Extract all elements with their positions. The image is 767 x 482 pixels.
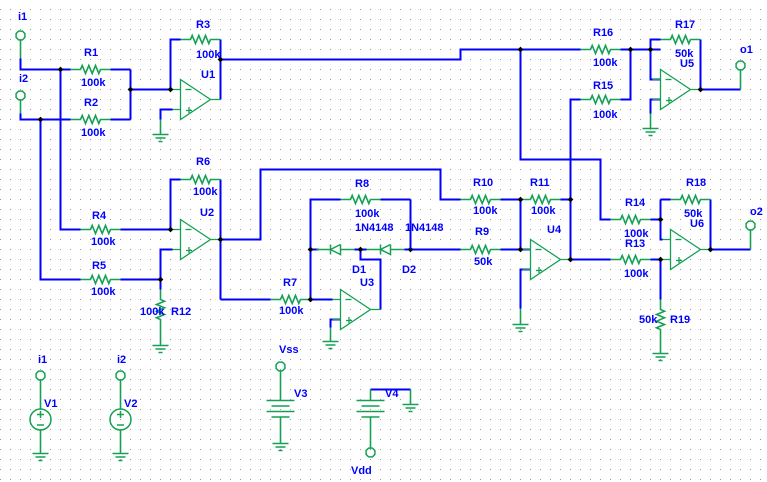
svg-text:R5: R5: [92, 260, 106, 272]
resistor R14: [611, 216, 651, 224]
wire R18 left vertical x660: [661, 200, 663, 240]
svg-text:100k: 100k: [279, 305, 304, 317]
svg-text:R6: R6: [196, 156, 210, 168]
svg-text:50k: 50k: [639, 314, 658, 326]
svg-text:R15: R15: [593, 80, 613, 92]
wire U4 plus to ground: [521, 270, 531, 309]
svg-text:R2: R2: [84, 97, 98, 109]
port i2 bottom: [116, 371, 125, 408]
wire R12 to ground: [160, 330, 162, 346]
wire R19 upper part: [660, 260, 662, 300]
op-amp U6: [663, 230, 711, 270]
wire node B to U1 minus: [131, 89, 173, 91]
ground U1: [153, 120, 169, 142]
port i2 top: [16, 91, 25, 113]
ground R19: [653, 354, 669, 361]
diode D2: [367, 245, 405, 255]
wire R12 upper part: [160, 280, 162, 290]
port Vdd: [366, 448, 375, 457]
wire R6 left loop: [171, 180, 181, 230]
wire R17 left stub: [651, 40, 661, 50]
wire R15 vertical x630: [621, 50, 631, 100]
wire R8 right vertical over label: [410, 200, 412, 250]
wire U5 out to o1: [701, 89, 741, 91]
svg-text:D2: D2: [402, 264, 416, 276]
resistor R10: [461, 196, 501, 204]
ground U3: [323, 328, 339, 349]
resistor R17: [661, 36, 701, 44]
battery V4: [357, 401, 385, 418]
op-amp U2: [173, 220, 221, 260]
wire node A down x60 to R4: [61, 70, 81, 230]
source V1: [30, 409, 51, 454]
svg-text:R14: R14: [625, 197, 646, 209]
battery V3: [267, 401, 295, 418]
svg-text:R7: R7: [283, 277, 297, 289]
wire R8 right vertical x410: [381, 199, 411, 201]
svg-text:R9: R9: [475, 226, 489, 238]
wire U2 plus down: [161, 250, 173, 280]
svg-text:R4: R4: [92, 210, 107, 222]
svg-text:i1: i1: [18, 11, 27, 23]
wire R9 right to U4 minus: [501, 249, 531, 251]
wire U5 plus to ground: [651, 100, 661, 114]
svg-text:V3: V3: [294, 388, 307, 400]
svg-text:U3: U3: [360, 277, 374, 289]
svg-text:50k: 50k: [474, 256, 493, 268]
svg-text:100k: 100k: [593, 57, 618, 69]
wire R14 right to U6 minus node: [651, 219, 661, 221]
ground V1: [33, 454, 49, 461]
wire R8 left loop x310: [311, 200, 341, 300]
port o2: [746, 221, 755, 249]
op-amp U4: [523, 240, 571, 280]
resistor R8: [341, 196, 381, 204]
resistor R4: [81, 226, 121, 234]
resistor R18: [671, 196, 711, 204]
svg-text:Vss: Vss: [279, 344, 299, 356]
resistor R3: [181, 36, 221, 44]
resistor R1: [71, 66, 111, 74]
svg-text:100k: 100k: [355, 208, 380, 220]
svg-text:U2: U2: [200, 207, 214, 219]
wire V4 to Vdd port: [370, 418, 372, 449]
svg-text:U6: U6: [690, 218, 704, 230]
wire R13 right stub: [651, 259, 663, 261]
op-amp U3: [333, 290, 381, 330]
svg-text:100k: 100k: [91, 286, 116, 298]
svg-text:100k: 100k: [81, 77, 106, 89]
resistor R6: [181, 176, 221, 184]
svg-text:V1: V1: [44, 398, 57, 410]
wire U2 out down to R7: [221, 299, 271, 301]
ground V4: [371, 390, 419, 412]
svg-text:100k: 100k: [593, 109, 618, 121]
svg-text:100k: 100k: [473, 205, 498, 217]
svg-text:100k: 100k: [193, 186, 218, 198]
svg-text:U5: U5: [680, 58, 694, 70]
svg-text:V4: V4: [385, 388, 399, 400]
wire R17 right vertical x700: [700, 40, 702, 90]
resistor R19 vertical: [657, 300, 665, 340]
resistor R16: [581, 46, 621, 54]
resistor R5: [81, 276, 121, 284]
wire R3 left loop: [171, 40, 181, 90]
wire U1 out long run y59: [221, 50, 581, 60]
wire R10 right to node: [501, 199, 521, 201]
resistor R15: [581, 96, 621, 104]
ground R12: [153, 346, 169, 353]
svg-text:U4: U4: [547, 224, 562, 236]
svg-text:R12: R12: [171, 306, 191, 318]
svg-text:100k: 100k: [91, 236, 116, 248]
wire V3 to ground: [280, 418, 282, 444]
port i1 top: [16, 31, 25, 58]
svg-text:R10: R10: [473, 177, 493, 189]
wire i1 to node A: [21, 59, 71, 70]
wire i2 to R2: [21, 114, 71, 120]
svg-text:100k: 100k: [140, 306, 165, 318]
svg-text:i1: i1: [38, 354, 47, 366]
wire R2 right to x130: [111, 119, 131, 121]
svg-text:100k: 100k: [531, 205, 556, 217]
wire U5 minus: [651, 50, 661, 80]
port Vss: [276, 362, 285, 400]
ground U4: [513, 309, 529, 332]
source V2: [110, 409, 131, 454]
wire U1 plus to ground: [161, 110, 173, 120]
svg-text:R16: R16: [593, 27, 613, 39]
wire R11 right stub: [561, 199, 571, 201]
wire U3 plus to ground: [331, 320, 341, 328]
port i1 bottom: [36, 371, 45, 408]
svg-text:D1: D1: [352, 264, 366, 276]
wire diode row blue stubs: [311, 249, 411, 251]
op-amp U5: [653, 70, 701, 110]
node junction dots: [58, 67, 64, 73]
svg-text:R19: R19: [670, 314, 690, 326]
svg-text:R17: R17: [675, 19, 695, 31]
svg-text:i2: i2: [117, 354, 126, 366]
svg-text:U1: U1: [201, 69, 215, 81]
op-amp U1: [173, 80, 221, 120]
resistor R7: [271, 296, 311, 304]
wire R7 right to U3 minus: [311, 299, 333, 301]
diode D1: [317, 245, 355, 255]
svg-text:1N4148: 1N4148: [355, 222, 394, 234]
ground V2: [113, 454, 129, 461]
ground U5: [643, 114, 659, 136]
wire R3 right vertical to U1 out: [220, 40, 222, 100]
svg-text:o1: o1: [740, 44, 753, 56]
wire R18 left stub: [661, 199, 671, 201]
svg-text:R8: R8: [355, 178, 369, 190]
resistor R13: [611, 256, 651, 264]
wire vertical x130 R1-R2: [130, 70, 132, 120]
resistor R2: [71, 116, 111, 124]
svg-text:o2: o2: [750, 206, 763, 218]
wire R16 right segment: [621, 49, 661, 51]
resistor R12 vertical: [157, 290, 165, 330]
svg-text:R18: R18: [686, 177, 706, 189]
wire U6 out to o2: [711, 249, 751, 251]
wire U3 out up to diode node: [361, 250, 381, 310]
svg-text:R3: R3: [196, 19, 210, 31]
wire R19 to ground: [660, 340, 662, 354]
wire node y49 down x520 to y159: [521, 50, 611, 220]
wire diode row to R9: [411, 249, 461, 251]
wire R4 right to U2 minus: [121, 229, 173, 231]
svg-text:i2: i2: [19, 73, 28, 85]
wire R10-R11 node down x520: [520, 200, 522, 250]
resistor R11: [521, 196, 561, 204]
wire R6 right vertical x220: [220, 180, 222, 300]
svg-text:Vdd: Vdd: [351, 465, 372, 477]
svg-text:100k: 100k: [624, 228, 649, 240]
wire U4 out to R13: [571, 259, 611, 261]
svg-text:100k: 100k: [196, 49, 221, 61]
wire U2 out across y169: [221, 170, 461, 240]
ground V3: [273, 444, 289, 451]
wire R15 left vertical x570: [571, 100, 581, 260]
port o1: [736, 61, 745, 89]
svg-text:100k: 100k: [81, 127, 106, 139]
svg-text:R1: R1: [84, 47, 98, 59]
svg-text:100k: 100k: [624, 268, 649, 280]
wire node C down x40 to R5: [41, 120, 81, 280]
svg-text:R11: R11: [530, 177, 550, 189]
wire R18 right vertical x710: [710, 200, 712, 250]
resistor R9: [461, 246, 501, 254]
svg-text:V2: V2: [124, 398, 137, 410]
wire R5 right to R12 node: [121, 279, 161, 281]
wire V4 top to ground: [371, 389, 411, 391]
wire R1 right to x130: [111, 69, 131, 71]
